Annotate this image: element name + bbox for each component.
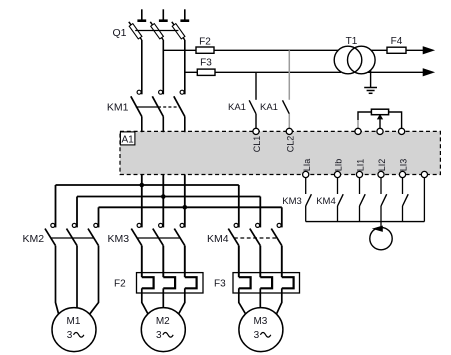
circuit breaker Q1 pole 2: [150, 22, 163, 40]
svg-text:3: 3: [156, 330, 162, 341]
contactor KM1 pole 3: [180, 90, 184, 94]
svg-text:KM4: KM4: [316, 196, 336, 207]
fuse F2: [196, 47, 214, 53]
svg-text:F4: F4: [391, 36, 403, 47]
svg-text:LI1: LI1: [356, 159, 366, 172]
wire F4 to output arrow: [406, 49, 424, 51]
relay contact KA1 (CL2): [283, 100, 290, 114]
wire to speed dial: [380, 222, 382, 228]
wire F3 to T1 primary: [215, 71, 341, 73]
wire F3 to M3 lead 3: [276, 288, 281, 314]
svg-text:KA1: KA1: [260, 102, 278, 113]
ground: [364, 87, 377, 89]
Q1 mechanical link: [135, 30, 178, 32]
KM1 mechanical link: [136, 106, 158, 108]
contactor KM3 pole 2: [159, 223, 163, 227]
wire feeder phase 1: [56, 184, 239, 186]
wire feeder phase 2: [77, 196, 260, 198]
motor M1: [52, 308, 96, 352]
F3 heater element 3: [281, 246, 283, 278]
wire drive output U2: [162, 175, 164, 228]
KM2 mechanical link: [51, 237, 94, 239]
fuse F3: [197, 69, 215, 75]
svg-text:F3: F3: [214, 279, 226, 290]
wire KM2 pole 1 to M1: [56, 246, 59, 314]
aux contact LI1 switch: [359, 178, 361, 194]
wire F2 tap: [163, 49, 196, 51]
drive block A1: [120, 131, 440, 174]
contactor KM2 pole 3: [94, 223, 98, 227]
contactor KM2 pole 2: [72, 223, 76, 227]
thermal overload relay F3: [233, 273, 300, 293]
contactor KM3 pole 3: [180, 223, 184, 227]
potentiometer R: [371, 109, 388, 115]
svg-text:KM3: KM3: [282, 196, 302, 207]
contactor KM4 pole 2: [256, 223, 260, 227]
wire F2 to M2 lead 2: [162, 288, 164, 308]
wire CL2 feed: [288, 50, 290, 100]
contactor KM3 pole 1: [137, 223, 141, 227]
terminal CL1: [253, 128, 259, 134]
wire KM2 pole 3 to M1: [90, 246, 99, 315]
F3 heater element 2: [259, 246, 261, 278]
svg-text:KM1: KM1: [107, 101, 129, 113]
svg-text:LIb: LIb: [334, 159, 344, 172]
relay contact KA1 (CL1): [249, 100, 256, 114]
motor M3: [239, 308, 283, 352]
svg-text:KA1: KA1: [228, 102, 246, 113]
wire phase L2 Q1 to KM1: [162, 40, 164, 94]
terminal LI2: [378, 171, 384, 177]
supply terminal L2: [162, 9, 164, 19]
aux contact KM4: [337, 178, 339, 194]
supply terminal L1: [141, 9, 143, 19]
terminal AI left: [355, 128, 361, 134]
wire feeder phase 3: [99, 206, 282, 208]
wire drive output U1: [141, 175, 143, 228]
thermal overload relay F2: [137, 273, 204, 293]
svg-text:M3: M3: [253, 316, 267, 327]
wire T1 secondary bottom: [367, 71, 424, 73]
potentiometer wire left: [358, 112, 371, 120]
terminal LIb: [334, 171, 340, 177]
contactor KM1 pole 2: [159, 90, 163, 94]
wire F2 to M2 lead 1: [142, 288, 148, 314]
aux contact KM3: [305, 178, 307, 194]
node junction 2: [161, 194, 166, 199]
svg-text:LIa: LIa: [302, 159, 312, 172]
wire phase L1 Q1 to KM1: [141, 40, 143, 94]
wire drive output U3: [184, 175, 186, 228]
svg-text:KM3: KM3: [108, 233, 130, 245]
F3 heater element 1: [238, 246, 240, 278]
svg-text:M1: M1: [67, 316, 81, 327]
F2 heater element 2: [162, 246, 164, 278]
aux contact LI2 switch: [380, 178, 382, 194]
potentiometer wiper arrow: [379, 118, 381, 128]
aux contact LI3 switch: [402, 178, 404, 194]
contactor KM2 pole 1: [51, 223, 55, 227]
output arrow top: [423, 47, 433, 54]
transformer T1: [334, 46, 362, 74]
motor M2: [141, 308, 185, 352]
svg-text:M2: M2: [156, 316, 170, 327]
svg-text:3: 3: [254, 330, 260, 341]
F2 heater element 3: [184, 246, 186, 278]
svg-text:F2: F2: [114, 279, 126, 290]
wire F2 to M2 lead 3: [179, 288, 185, 314]
wire common return: [423, 178, 425, 222]
svg-text:LI2: LI2: [377, 159, 387, 172]
label A1: [120, 132, 134, 145]
wire KM2 pole 2 to M1: [76, 246, 78, 308]
wire F3 tap: [185, 71, 198, 73]
svg-text:LI3: LI3: [399, 159, 409, 172]
KM4 mechanical link: [234, 237, 277, 239]
circuit breaker Q1 pole 3: [172, 22, 185, 40]
svg-text:CL2: CL2: [286, 136, 296, 153]
node junction 1: [140, 183, 145, 188]
svg-text:3: 3: [67, 330, 73, 341]
svg-text:F3: F3: [200, 57, 212, 68]
terminal CL2: [286, 128, 292, 134]
KM3 mechanical link: [137, 237, 180, 239]
output arrow bottom: [423, 69, 433, 76]
contactor KM1 pole 1: [137, 90, 141, 94]
wire T1 secondary to F4: [371, 49, 387, 51]
wire F3 to M3 lead 1: [239, 288, 246, 314]
supply terminal L3: [184, 9, 186, 19]
terminal common: [421, 171, 427, 177]
node junction 3: [183, 205, 188, 210]
wire phase L3 Q1 to KM1: [184, 40, 186, 94]
contactor KM4 pole 1: [234, 223, 238, 227]
F2 heater element 1: [141, 246, 143, 278]
terminal LI1: [356, 171, 362, 177]
wire F2 to T1 primary: [214, 49, 339, 51]
terminal AI wiper: [377, 128, 383, 134]
terminal AI right: [399, 128, 405, 134]
contactor KM4 pole 3: [277, 223, 281, 227]
svg-text:Q1: Q1: [112, 27, 126, 39]
wire T1 to ground: [370, 70, 372, 87]
speed reference dial: [370, 227, 392, 249]
terminal LIa: [303, 171, 309, 177]
svg-text:KM2: KM2: [23, 233, 45, 245]
wire F3 to M3 lead 2: [259, 288, 261, 308]
fuse F4: [387, 47, 406, 53]
circuit breaker Q1 pole 1: [129, 22, 142, 40]
potentiometer wire right: [389, 112, 402, 128]
svg-text:CL1: CL1: [252, 136, 262, 153]
svg-text:T1: T1: [346, 36, 358, 47]
wire CL1 feed: [255, 72, 257, 100]
terminal LI3: [399, 171, 405, 177]
svg-text:KM4: KM4: [207, 233, 229, 245]
wire bus: [306, 221, 425, 223]
svg-text:A1: A1: [121, 134, 134, 145]
svg-text:F2: F2: [199, 37, 211, 48]
